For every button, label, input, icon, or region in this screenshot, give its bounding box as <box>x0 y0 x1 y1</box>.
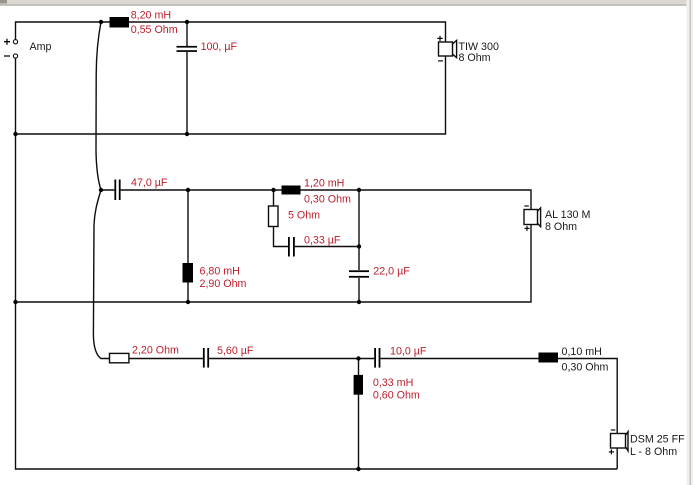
svg-text:0,30 Ohm: 0,30 Ohm <box>304 194 351 206</box>
svg-text:6,80 mH: 6,80 mH <box>200 266 240 278</box>
svg-text:0,33 mH: 0,33 mH <box>373 377 413 389</box>
svg-text:10,0 µF: 10,0 µF <box>390 346 427 358</box>
svg-text:0,30 Ohm: 0,30 Ohm <box>562 362 609 374</box>
svg-text:8 Ohm: 8 Ohm <box>545 221 577 233</box>
svg-text:AL 130 M: AL 130 M <box>545 209 590 221</box>
svg-text:DSM 25 FF: DSM 25 FF <box>630 434 685 446</box>
svg-text:Amp: Amp <box>30 41 52 53</box>
svg-text:L - 8 Ohm: L - 8 Ohm <box>630 446 677 458</box>
svg-text:22,0 µF: 22,0 µF <box>373 266 410 278</box>
svg-text:8,20 mH: 8,20 mH <box>131 10 171 22</box>
svg-text:5,60 µF: 5,60 µF <box>217 345 254 357</box>
svg-text:8 Ohm: 8 Ohm <box>459 52 491 64</box>
svg-text:0,10 mH: 0,10 mH <box>562 346 602 358</box>
svg-text:2,90 Ohm: 2,90 Ohm <box>200 278 247 290</box>
svg-text:2,20 Ohm: 2,20 Ohm <box>132 345 179 357</box>
svg-text:47,0 µF: 47,0 µF <box>131 177 168 189</box>
svg-text:0,60 Ohm: 0,60 Ohm <box>373 390 420 402</box>
svg-text:1,20 mH: 1,20 mH <box>304 178 344 190</box>
svg-text:0,55 Ohm: 0,55 Ohm <box>131 24 178 36</box>
svg-text:0,33 µF: 0,33 µF <box>304 235 341 247</box>
svg-text:5 Ohm: 5 Ohm <box>288 210 320 222</box>
svg-text:100, µF: 100, µF <box>201 41 238 53</box>
